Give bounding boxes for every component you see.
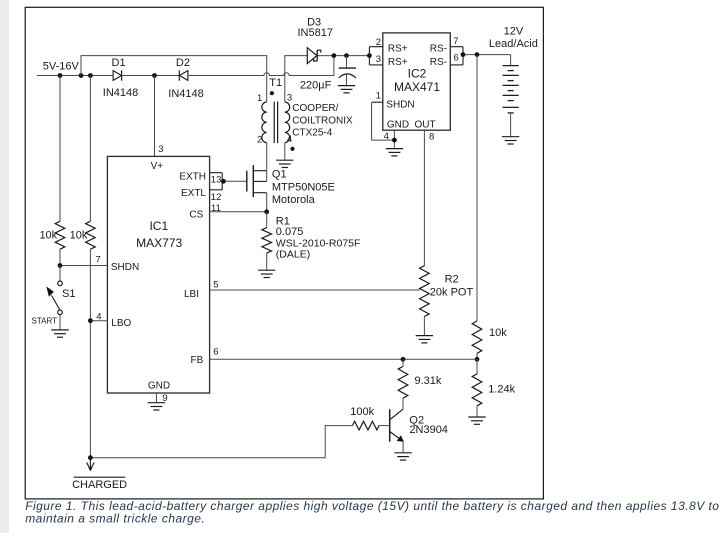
label R2: [445, 274, 459, 286]
svg-text:GND: GND: [387, 120, 409, 131]
junction battery bracket: [461, 52, 466, 57]
svg-text:IC2: IC2: [408, 66, 427, 80]
svg-text:3: 3: [376, 54, 381, 65]
wire T1 pin2 to Q1 drain: [266, 143, 268, 182]
switch S1 contact top: [58, 281, 63, 286]
junction IC2 gnd: [392, 138, 397, 143]
svg-text:1: 1: [257, 93, 262, 104]
IC2 label RS+ row2: [388, 57, 408, 68]
svg-text:5: 5: [213, 280, 218, 291]
svg-text:2N3904: 2N3904: [409, 424, 448, 436]
IC1 label EXTH: [179, 171, 206, 182]
svg-text:S1: S1: [62, 288, 75, 300]
junction FB right: [475, 357, 480, 362]
wire sense column: [476, 55, 478, 321]
svg-text:12: 12: [211, 192, 222, 203]
svg-text:LBI: LBI: [184, 289, 199, 300]
svg-text:1.24k: 1.24k: [488, 384, 515, 396]
Q1 source tap: [253, 192, 266, 194]
label Lead/Acid: [489, 38, 538, 50]
IC2 pin number 1: [376, 90, 381, 101]
svg-text:T1: T1: [269, 77, 282, 89]
wire IC1 gnd: [155, 393, 157, 403]
wire Q2 emitter to gnd: [402, 441, 404, 452]
IC2 part MAX471: [394, 80, 440, 94]
svg-text:D1: D1: [112, 57, 126, 69]
junction V+ tap: [152, 73, 157, 78]
IC2 pin number 8: [429, 132, 434, 143]
svg-text:IC1: IC1: [149, 219, 168, 233]
wire charged net: [90, 426, 352, 458]
IC1 pin number 7: [96, 255, 101, 266]
IC1 pin number 4: [96, 312, 101, 323]
ground IC2: [386, 149, 403, 156]
svg-text:7: 7: [453, 36, 458, 47]
svg-text:EXTL: EXTL: [181, 188, 206, 199]
op-amp U IC1 box: [107, 156, 209, 393]
Q2 emitter stroke: [390, 432, 404, 442]
IC1 name: [149, 219, 168, 233]
svg-text:CTX25-4: CTX25-4: [292, 128, 332, 139]
svg-text:maintain a small trickle charg: maintain a small trickle charge.: [25, 511, 205, 525]
junction FB left: [401, 357, 406, 362]
svg-text:0.075: 0.075: [276, 226, 304, 238]
IC1 label LBI: [184, 289, 199, 300]
svg-text:CHARGED: CHARGED: [72, 479, 127, 491]
Q1 body tap: [253, 180, 266, 182]
svg-text:LBO: LBO: [111, 318, 131, 329]
svg-text:1: 1: [376, 90, 381, 101]
IC1 label V+: [151, 161, 164, 172]
transistor Q1 gate bar: [246, 171, 248, 192]
label D1: [112, 57, 126, 69]
wire LBO stub: [90, 320, 107, 322]
svg-text:100k: 100k: [350, 406, 374, 418]
wire 10k b down to LBO and beyond: [89, 249, 91, 458]
wire switch to gnd: [59, 315, 61, 330]
label 100k: [350, 406, 374, 418]
IC1 label LBO: [111, 318, 131, 329]
switch S1 arm with arrow: [46, 286, 60, 310]
wire T1 secondary bottom: [284, 143, 286, 160]
wire D2 to cap node with hops: [188, 56, 334, 76]
IC2 label RS- row2: [430, 57, 447, 68]
T1 pin number 2: [257, 135, 262, 146]
svg-text:4: 4: [384, 131, 389, 142]
svg-text:START: START: [32, 317, 58, 326]
IC2 pin number 6: [454, 52, 459, 63]
IC2 right bracket: [462, 47, 464, 65]
caption line 2: [25, 511, 205, 525]
resistor 9.31k: [398, 366, 408, 398]
label 220uF: [300, 79, 332, 91]
wire IC2 pin4 down: [393, 130, 395, 148]
svg-text:Motorola: Motorola: [272, 194, 316, 206]
svg-text:3: 3: [287, 92, 292, 103]
T1 pin number 3: [287, 92, 292, 103]
junction LBO: [88, 318, 93, 323]
wire top rail to T1 pin1: [81, 56, 267, 102]
ground Q2: [394, 453, 411, 460]
svg-text:9.31k: 9.31k: [415, 375, 442, 387]
svg-text:RS+: RS+: [388, 57, 408, 68]
svg-text:2: 2: [376, 37, 381, 48]
junction SHDN: [58, 263, 63, 268]
label Q2: [409, 414, 424, 426]
svg-text:11: 11: [211, 203, 221, 214]
wire FB: [210, 358, 477, 360]
svg-text:IN4148: IN4148: [168, 88, 203, 100]
CHARGED overline: [74, 476, 126, 478]
transistor Q2 base bar: [389, 409, 391, 442]
label D3: [307, 17, 321, 29]
svg-text:CS: CS: [189, 210, 203, 221]
svg-text:13: 13: [211, 175, 222, 186]
wire V+ feed: [154, 76, 156, 157]
caption line 1: [25, 499, 719, 513]
wire D3 cathode to IC2 bracket: [317, 55, 369, 57]
wire left 10k a: [59, 76, 61, 222]
junction CHARGED: [88, 455, 93, 460]
IC1 label FB: [191, 355, 204, 366]
label D2: [176, 57, 190, 69]
transformer T1 core: [274, 102, 277, 144]
IC1 pin number 3: [158, 144, 163, 155]
T1 pin number 1: [257, 93, 262, 104]
transformer T1 secondary winding: [285, 102, 290, 143]
wire to switch: [59, 266, 61, 282]
svg-text:RS-: RS-: [430, 44, 447, 55]
wire Q1 source to CS: [266, 193, 268, 212]
IC1 pin12 stub: [210, 189, 223, 191]
label 1.24k: [488, 384, 515, 396]
IC2 pin number 3: [376, 54, 381, 65]
svg-text:4: 4: [96, 312, 101, 323]
label IN4148 for D2: [168, 88, 203, 100]
svg-text:V+: V+: [151, 161, 164, 172]
wire left 10k b: [89, 76, 91, 222]
label COOPER/: [292, 103, 338, 114]
IC2 pin7 stub: [450, 46, 463, 48]
svg-text:SHDN: SHDN: [386, 99, 414, 110]
IC1 ext bracket: [221, 173, 223, 190]
IC2 pin number 4: [384, 131, 389, 142]
svg-text:3: 3: [158, 144, 163, 155]
IC1 pin number 5: [213, 280, 218, 291]
svg-text:GND: GND: [148, 380, 170, 391]
IC2 name: [408, 66, 427, 80]
svg-text:MTP50N05E: MTP50N05E: [272, 181, 335, 193]
label Q1: [272, 169, 287, 181]
wire CS to R1: [266, 212, 268, 228]
T1 pin number 4: [287, 134, 292, 145]
svg-text:10k: 10k: [39, 229, 57, 241]
svg-text:COILTRONIX: COILTRONIX: [292, 115, 353, 126]
IC1 pin number 11: [211, 203, 221, 214]
IC1 pin number 13: [211, 175, 222, 186]
svg-text:10k: 10k: [70, 229, 88, 241]
resistor 1.24k: [472, 374, 482, 406]
IC1 label SHDN: [111, 262, 139, 273]
ground battery: [502, 137, 519, 144]
label CTX25-4: [292, 128, 332, 139]
battery 12V lead-acid: [503, 66, 519, 137]
label 10k right: [489, 327, 507, 339]
wire LBI: [210, 289, 420, 291]
svg-text:10k: 10k: [489, 327, 507, 339]
svg-text:Lead/Acid: Lead/Acid: [489, 38, 538, 50]
wire 9.31k to Q2 collector: [402, 398, 404, 409]
ground T1 pin4: [276, 160, 293, 167]
diode D2 (reversed): [179, 70, 188, 80]
IC1 label CS: [189, 210, 203, 221]
wire D1 to D2: [122, 75, 180, 77]
switch S1 contact bottom: [58, 310, 63, 315]
label START: [32, 317, 58, 326]
IC1 pin number 12: [211, 192, 222, 203]
transformer T1 primary winding: [262, 102, 267, 143]
svg-text:6: 6: [454, 52, 459, 63]
svg-text:20k POT: 20k POT: [430, 287, 474, 299]
label IN4148 for D1: [103, 87, 138, 99]
label WSL-2010-R075F: [276, 237, 361, 249]
label 10k b: [70, 229, 88, 241]
IC1 pin number 6: [213, 346, 218, 357]
svg-text:5V-16V: 5V-16V: [43, 60, 80, 72]
IC2 pin3 stub: [369, 64, 382, 66]
wire 10k to FB: [476, 353, 478, 359]
svg-text:WSL-2010-R075F: WSL-2010-R075F: [276, 237, 361, 249]
label 9.31k: [415, 375, 442, 387]
IC2 label RS- row1: [430, 44, 447, 55]
ground IC1: [148, 403, 165, 410]
ground 220uF: [338, 86, 355, 93]
junction gate: [221, 179, 226, 184]
svg-text:RS-: RS-: [430, 57, 447, 68]
IC1 pin number 9: [162, 393, 167, 404]
wire Q2 base: [379, 425, 390, 427]
transistor Q1 channel bar: [252, 165, 254, 197]
svg-text:SHDN: SHDN: [111, 262, 139, 273]
wire T1 secondary riser to D3: [285, 56, 308, 102]
junction CS: [264, 209, 269, 214]
IC2 pin6 stub: [450, 64, 463, 66]
svg-text:IN5817: IN5817: [298, 27, 333, 39]
svg-text:R2: R2: [445, 274, 459, 286]
junction IC2 in: [367, 53, 372, 58]
label S1: [62, 288, 75, 300]
Q1 drain tap: [253, 170, 266, 172]
diode D1: [113, 70, 122, 80]
wire R2 to gnd: [423, 317, 425, 336]
svg-text:EXTH: EXTH: [179, 171, 206, 182]
svg-text:12V: 12V: [504, 26, 524, 38]
node 5V-16V label: [43, 60, 80, 72]
junction cap tap: [344, 53, 349, 58]
junction input b: [79, 73, 84, 78]
IC2 label RS+ row1: [388, 44, 408, 55]
label COILTRONIX: [292, 115, 353, 126]
wire cap top: [346, 56, 348, 69]
label T1: [269, 77, 282, 89]
wire R1 to gnd: [266, 253, 268, 270]
svg-text:IN4148: IN4148: [103, 87, 138, 99]
junction input c: [88, 73, 93, 78]
wire FB to 9.31k: [402, 359, 404, 366]
schematic border frame: [25, 7, 543, 499]
svg-text:FB: FB: [191, 355, 204, 366]
IC1 part MAX773: [136, 236, 182, 250]
capacitor 220uF: [339, 68, 356, 78]
resistor R2 pot: [420, 266, 430, 317]
resistor 100k: [352, 421, 379, 430]
wire gate: [222, 180, 247, 182]
junction rail riser: [332, 53, 337, 58]
svg-text:8: 8: [429, 132, 434, 143]
label 0.075: [276, 226, 304, 238]
IC2 left bracket: [368, 47, 370, 65]
svg-text:2: 2: [257, 135, 262, 146]
svg-text:OUT: OUT: [415, 120, 436, 131]
svg-text:MAX471: MAX471: [394, 80, 440, 94]
svg-text:220µF: 220µF: [300, 79, 332, 91]
wire IC2 pin1 to gnd net: [372, 102, 395, 140]
label 10k a: [39, 229, 57, 241]
IC1 label EXTL: [181, 188, 206, 199]
label R1: [276, 216, 290, 228]
resistor R1: [262, 228, 272, 254]
label 12V: [504, 26, 524, 38]
wire 1.24k to gnd: [476, 406, 478, 417]
IC2 label OUT: [415, 120, 436, 131]
svg-text:7: 7: [96, 255, 101, 266]
label MTP50N05E: [272, 181, 335, 193]
CHARGED arrow: [87, 458, 94, 472]
wire cap to ground: [346, 75, 348, 86]
IC2 label SHDN: [386, 99, 414, 110]
wire IC2 OUT down: [423, 130, 425, 266]
IC2 pin2 stub: [369, 46, 382, 48]
diode D3 IN5817: [307, 48, 321, 64]
ground R1: [258, 270, 275, 277]
ground S1: [51, 330, 68, 337]
junction input a: [58, 73, 63, 78]
resistor 10k right: [472, 321, 482, 353]
label 20k POT: [430, 287, 474, 299]
label Motorola: [272, 194, 316, 206]
ground R2: [416, 336, 433, 343]
ground 1.24k: [468, 417, 485, 424]
svg-text:Q1: Q1: [272, 169, 287, 181]
wire FB to 1.24k: [476, 359, 478, 374]
label IN5817: [298, 27, 333, 39]
op-amp U IC2 box: [383, 33, 451, 130]
IC2 label GND: [387, 120, 409, 131]
wire SHDN pin7: [60, 265, 107, 267]
IC1 label GND: [148, 380, 170, 391]
T1 phase dot pin4: [290, 147, 294, 151]
Q2 collector stroke: [390, 409, 403, 420]
IC1 pin13 stub: [210, 172, 223, 174]
wire 10k a to SHDN: [59, 249, 61, 265]
svg-text:(DALE): (DALE): [276, 249, 310, 261]
svg-text:6: 6: [213, 346, 218, 357]
wire input stub: [37, 75, 113, 77]
resistor 10k left b: [86, 221, 96, 249]
svg-text:COOPER/: COOPER/: [292, 103, 338, 114]
wire CS: [210, 211, 267, 213]
left gray gutter: [0, 0, 9, 533]
IC2 pin number 2: [376, 37, 381, 48]
label DALE: [276, 249, 310, 261]
junction battery sense: [475, 52, 480, 57]
svg-text:MAX773: MAX773: [136, 236, 182, 250]
resistor 10k left a: [55, 221, 65, 249]
svg-text:D2: D2: [176, 57, 190, 69]
label 2N3904: [409, 424, 448, 436]
IC2 pin number 7: [453, 36, 458, 47]
wire IC2 to battery: [463, 54, 511, 56]
wire battery drop: [510, 55, 512, 66]
T1 phase dot pin1: [270, 91, 274, 95]
label CHARGED: [72, 479, 127, 491]
IC2 pin1 stub: [372, 101, 383, 103]
svg-text:RS+: RS+: [388, 44, 408, 55]
